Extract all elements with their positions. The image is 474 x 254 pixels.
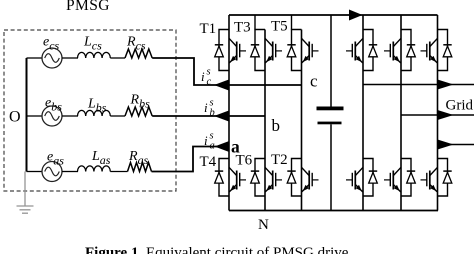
svg-text:T1: T1: [200, 21, 217, 37]
switch T1: IGBT with antiparallel diode: [215, 30, 246, 71]
neutral wire: left vertical bus: [26, 58, 28, 172]
svg-text:c: c: [310, 72, 318, 91]
DC bottom bus wire: [229, 210, 438, 212]
inductor L_cs: [78, 52, 111, 58]
svg-text:T5: T5: [271, 19, 288, 35]
svg-text:Figure 1. Equivalent circuit o: Figure 1. Equivalent circuit of PMSG dri…: [85, 245, 349, 254]
svg-text:a: a: [231, 137, 240, 157]
svg-text:T4: T4: [200, 154, 217, 170]
DC-link capacitor C: [317, 15, 344, 211]
grid arrow phase 1 (points right): [438, 80, 454, 90]
grid arrow phase 3 (points right): [438, 140, 454, 150]
wire source to inductor (phase b): [62, 115, 78, 117]
resistor R_cs: [125, 49, 152, 58]
wire inductor to resistor (phase a): [110, 171, 127, 173]
inductor L_as: [78, 166, 111, 172]
wire inductor to resistor (phase b): [110, 115, 125, 117]
switch T5: IGBT with antiparallel diode: [287, 30, 318, 71]
svg-text:b: b: [272, 116, 281, 135]
switch T3: IGBT with antiparallel diode: [251, 30, 282, 71]
svg-text:Grid: Grid: [446, 98, 474, 114]
grid-side IGBT+diode switch (top, leg 1): [346, 30, 377, 71]
svg-text:b: b: [210, 108, 215, 119]
grid arrow phase 2 (points right): [438, 110, 454, 120]
wire phase a to converter node a: [152, 147, 230, 172]
svg-text:i: i: [201, 69, 205, 84]
grid output wire phase 2: [401, 114, 474, 116]
current arrow i_b (points left): [214, 111, 229, 122]
machine-side leg 3 top drop wire: [291, 15, 293, 30]
switch T4: IGBT with antiparallel diode: [215, 159, 246, 197]
grid-side IGBT+diode switch (bottom, leg 3): [421, 159, 452, 197]
voltage source e_as: [27, 162, 63, 182]
machine-side leg 3 vertical wire: [301, 30, 303, 211]
current arrow i_a (points left): [215, 141, 229, 151]
resistor R_as: [128, 163, 152, 172]
switch T2: IGBT with antiparallel diode: [287, 159, 318, 197]
svg-text:Lbs: Lbs: [87, 97, 107, 115]
DC top bus wire: [229, 14, 438, 16]
svg-text:eas: eas: [47, 150, 64, 168]
svg-text:Rbs: Rbs: [130, 93, 151, 111]
svg-text:N: N: [258, 217, 269, 233]
grid-side IGBT+diode switch (bottom, leg 1): [346, 159, 377, 197]
ground symbol (gray): [17, 172, 34, 214]
svg-text:T2: T2: [271, 152, 288, 168]
svg-text:c: c: [207, 77, 212, 88]
wire phase b to converter node b: [152, 115, 265, 117]
machine-side leg 2 top drop wire: [254, 15, 256, 30]
svg-text:i: i: [204, 100, 208, 115]
svg-text:Las: Las: [91, 149, 111, 167]
machine-side leg 1 vertical wire: [228, 15, 230, 211]
svg-text:PMSG: PMSG: [66, 0, 110, 14]
inductor L_bs: [78, 110, 111, 116]
svg-text:Lcs: Lcs: [83, 35, 102, 53]
svg-text:ebs: ebs: [45, 96, 62, 114]
voltage source e_cs: [27, 48, 63, 68]
switch T6: IGBT with antiparallel diode: [251, 159, 282, 197]
wire source to inductor (phase a): [62, 171, 78, 173]
svg-text:T3: T3: [234, 20, 251, 36]
PMSG machine dashed enclosure box: [4, 30, 176, 191]
grid output wire phase 1: [363, 84, 474, 86]
grid output wire phase 3: [438, 144, 474, 146]
grid-side leg 1 vertical wire: [362, 15, 364, 211]
svg-text:i: i: [204, 133, 208, 148]
grid-side IGBT+diode switch (bottom, leg 2): [384, 159, 415, 197]
grid-side IGBT+diode switch (top, leg 2): [384, 30, 415, 71]
machine-side leg 2 vertical wire: [264, 30, 266, 211]
resistor R_bs: [125, 107, 152, 116]
grid-side leg 2 vertical wire: [400, 15, 402, 211]
voltage source e_bs: [27, 106, 63, 126]
svg-text:a: a: [210, 141, 215, 152]
grid-side leg 3 vertical wire: [437, 15, 439, 211]
DC bus current arrow (points right): [349, 10, 363, 21]
wire source to inductor (phase c): [62, 57, 78, 59]
current arrow i_c (points left): [214, 80, 229, 91]
svg-text:O: O: [9, 109, 21, 126]
wire inductor to resistor (phase c): [110, 57, 125, 59]
grid-side IGBT+diode switch (top, leg 3): [421, 30, 452, 71]
wire phase c to converter node c: [152, 58, 301, 85]
